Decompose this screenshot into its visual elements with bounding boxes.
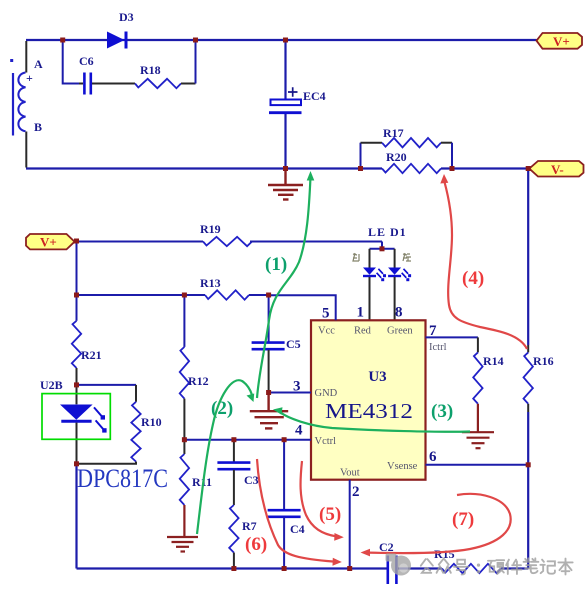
junction V+ column / R13 row xyxy=(74,293,79,298)
junction bottom rail / Vout xyxy=(347,566,352,571)
svg-text:R14: R14 xyxy=(483,354,504,368)
dual LED LED1 (green element) xyxy=(388,268,411,282)
svg-text:Ictrl: Ictrl xyxy=(429,342,447,353)
wire C5 bottom to GND node xyxy=(268,350,270,393)
resistor R14 xyxy=(473,352,503,403)
junction bottom rail / R17-R20 left xyxy=(358,166,363,171)
resistor R15 xyxy=(434,547,501,573)
svg-text:(4): (4) xyxy=(462,268,484,289)
junction U2B cathode xyxy=(74,461,79,466)
wire V- rail upper segment xyxy=(527,169,529,346)
svg-text:R12: R12 xyxy=(188,374,209,388)
junction bottom rail / C4 xyxy=(282,566,287,571)
power port V+ top right xyxy=(537,33,583,49)
pin stub R7 bottom xyxy=(233,553,235,569)
wire R13 to C5 node xyxy=(249,294,269,296)
junction top rail / snubber xyxy=(60,38,65,43)
svg-text:Vsense: Vsense xyxy=(387,461,418,472)
svg-text:Red: Red xyxy=(354,326,372,337)
dual LED LED1 (red element) xyxy=(363,268,386,282)
wire pin 6 Vsense to V- rail xyxy=(426,464,529,466)
wire V+ to R19 xyxy=(77,241,204,243)
power port V+ left xyxy=(26,234,75,250)
svg-text:(1): (1) xyxy=(265,254,287,275)
capacitor C5 xyxy=(252,337,301,351)
svg-text:V+: V+ xyxy=(40,235,57,250)
resistor R10 xyxy=(131,402,161,462)
svg-text:8: 8 xyxy=(395,305,403,321)
green channel chinese tag xyxy=(403,253,411,261)
wire R18 up to top rail xyxy=(181,41,196,84)
resistor R13 xyxy=(200,276,249,300)
annotation arrow (6) xyxy=(257,459,342,566)
ground at center GND node xyxy=(250,393,288,429)
annotation arrow (1) xyxy=(257,171,314,398)
capacitor EC4 (electrolytic) xyxy=(269,87,326,112)
svg-text:R17: R17 xyxy=(383,126,404,140)
svg-text:+: + xyxy=(26,71,33,85)
wire V- rail lower segment xyxy=(527,412,529,569)
junction Vctrl row / R12-R11 xyxy=(182,437,187,442)
wire left rail down xyxy=(75,464,77,569)
annotation arrow (2) xyxy=(197,380,254,534)
wire LED1 green branch xyxy=(394,249,396,268)
wire C6 to R18 xyxy=(92,83,135,85)
svg-text:R13: R13 xyxy=(200,276,221,290)
wire EC4 to bottom rail xyxy=(284,114,286,169)
svg-text:(3): (3) xyxy=(431,401,453,422)
wire R12 top xyxy=(183,295,185,347)
junction LED1 anode xyxy=(380,246,385,251)
optocoupler U2B outline box xyxy=(42,394,110,440)
pin stub R16 bottom xyxy=(527,404,529,412)
pin wire LED1 green cathode to pin 8 xyxy=(394,277,396,320)
svg-text:V+: V+ xyxy=(553,34,570,49)
svg-text:R20: R20 xyxy=(386,150,407,164)
wire R10 bottom to cathode node xyxy=(77,462,137,464)
wire pin 3 GND xyxy=(269,392,311,394)
pin stub R11 top xyxy=(183,440,185,454)
resistor R19 xyxy=(200,222,252,246)
wire bottom rail left of C2 xyxy=(77,567,387,569)
pin stub R12 bottom xyxy=(183,399,185,440)
pin stub C3 top xyxy=(233,440,235,463)
wire U2B anode node to R10 xyxy=(77,384,137,386)
power port V- xyxy=(529,161,583,177)
wire bottom rail of input loop (V- net, left part) xyxy=(26,167,382,169)
red channel chinese tag xyxy=(353,253,359,261)
junction Vsense / V- rail xyxy=(526,462,531,467)
annotation arrow (3) xyxy=(273,407,470,431)
capacitor C2 xyxy=(379,540,396,584)
svg-text:(7): (7) xyxy=(452,509,474,530)
wire R19 to LED1 xyxy=(250,241,382,243)
wire bottom rail C2 to R15 xyxy=(398,567,442,569)
junction R13 row / R12 xyxy=(182,293,187,298)
wire R15 to V- rail corner xyxy=(501,567,528,569)
svg-text:R16: R16 xyxy=(533,354,554,368)
op-amp controller IC U3 body xyxy=(311,320,426,479)
annotation arrow (7) xyxy=(361,494,511,557)
resistor R17 xyxy=(361,126,453,169)
ground at R14 xyxy=(462,432,494,448)
svg-text:U2B: U2B xyxy=(40,378,63,392)
pin stub R21 bottom xyxy=(76,368,78,385)
svg-text:(5): (5) xyxy=(319,504,341,525)
transformer T1 xyxy=(10,41,26,168)
wire LED1 anode drop xyxy=(381,242,383,249)
pin stub R14 top xyxy=(477,337,479,352)
svg-text:(6): (6) xyxy=(245,534,267,555)
svg-text:C6: C6 xyxy=(79,54,94,68)
pin stub R10 top xyxy=(135,385,137,402)
wire EC4 branch from top rail xyxy=(284,41,286,100)
svg-text:A: A xyxy=(34,57,43,71)
svg-text:C4: C4 xyxy=(290,522,305,536)
wire top rail (V+ net) xyxy=(26,39,537,41)
junction bottom rail / EC4 ground xyxy=(283,166,288,171)
watermark text (vector CJK strokes) xyxy=(421,558,573,574)
svg-text:2: 2 xyxy=(352,484,360,500)
wire snubber branch down from top rail xyxy=(63,40,79,84)
svg-text:Vctrl: Vctrl xyxy=(315,436,337,447)
wire C4 top xyxy=(283,440,285,510)
junction top rail / EC4 xyxy=(283,38,288,43)
pin wire LED1 red cathode to pin 1 xyxy=(369,277,371,320)
wire pin 7 Ictrl xyxy=(426,336,478,338)
wire LED1 red branch xyxy=(369,249,371,268)
wire R11 to ground xyxy=(183,505,185,537)
resistor R12 xyxy=(180,347,209,399)
junction Vctrl row / C3 xyxy=(231,437,236,442)
junction V+ port left xyxy=(74,239,79,244)
junction U2B anode xyxy=(74,382,79,387)
wire bottom rail of input loop (V- net, right part) xyxy=(441,167,529,169)
svg-text:B: B xyxy=(34,120,42,134)
svg-text:R10: R10 xyxy=(141,415,162,429)
wire pin 5 Vcc L-shaped xyxy=(269,295,336,320)
resistor R18 xyxy=(135,63,181,88)
svg-text:R19: R19 xyxy=(200,222,221,236)
junction bottom rail / R17-R20 right xyxy=(450,166,455,171)
wire LED1 anode tie bar xyxy=(370,248,395,250)
watermark camera logo xyxy=(386,554,412,576)
svg-text:Vcc: Vcc xyxy=(318,326,335,337)
wire C5 top xyxy=(268,295,270,342)
ground at R11 xyxy=(167,537,198,552)
svg-text:V-: V- xyxy=(551,162,564,177)
resistor R7 xyxy=(229,505,256,553)
svg-text:R21: R21 xyxy=(81,348,102,362)
svg-text:U3: U3 xyxy=(368,369,386,385)
svg-text:R18: R18 xyxy=(140,63,161,77)
capacitor C6 xyxy=(79,54,94,95)
svg-text:EC4: EC4 xyxy=(303,89,326,103)
svg-text:5: 5 xyxy=(322,306,330,322)
annotation arrow (5) xyxy=(301,461,344,541)
pin stub R16 top xyxy=(527,345,529,352)
optocoupler U2B LED xyxy=(60,385,107,464)
svg-text:D3: D3 xyxy=(119,10,134,24)
wire pin 4 Vctrl row xyxy=(184,439,311,441)
svg-text:Green: Green xyxy=(387,326,413,337)
capacitor C4 xyxy=(268,510,305,536)
svg-text:GND: GND xyxy=(315,388,338,399)
wire V+ vertical feeding R21 xyxy=(76,241,78,321)
junction Vctrl row / C4 xyxy=(282,437,287,442)
diode D3 xyxy=(107,10,134,49)
svg-text:C5: C5 xyxy=(286,337,301,351)
junction top rail / R18 return xyxy=(193,38,198,43)
ground at EC4 node xyxy=(268,169,303,200)
annotation arrow (4) xyxy=(440,174,527,349)
wire V+ to R13 row xyxy=(77,294,206,296)
svg-text:1: 1 xyxy=(357,305,365,321)
svg-text:R7: R7 xyxy=(242,519,257,533)
svg-text:Vout: Vout xyxy=(340,468,360,479)
pin stub C6 left xyxy=(79,83,83,85)
wire C4 bottom xyxy=(283,517,285,568)
svg-text:4: 4 xyxy=(295,423,303,439)
resistor R11 xyxy=(180,454,212,505)
svg-text:ME4312: ME4312 xyxy=(325,399,413,423)
resistor R21 xyxy=(72,321,102,368)
svg-text:LE D1: LE D1 xyxy=(368,225,407,239)
resistor R20 xyxy=(382,150,441,173)
wire R14 to ground xyxy=(477,404,479,432)
junction R13 row / C5 / pin5 xyxy=(266,293,271,298)
svg-text:6: 6 xyxy=(429,449,437,465)
junction bottom rail / V- port xyxy=(526,166,531,171)
svg-text:C3: C3 xyxy=(244,473,259,487)
capacitor C3 xyxy=(217,463,258,487)
resistor R16 xyxy=(524,352,554,403)
junction bottom rail / R7 xyxy=(231,566,236,571)
wire pin 2 Vout down xyxy=(349,480,351,569)
wire C3 to R7 xyxy=(233,470,235,505)
junction C5 / pin3 / ground xyxy=(266,390,271,395)
svg-text:DPC817C: DPC817C xyxy=(77,464,168,493)
